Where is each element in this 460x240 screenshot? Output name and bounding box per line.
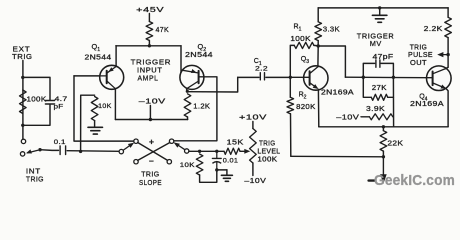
svg-text:+45V: +45V bbox=[136, 5, 164, 14]
wire emitter top rail bbox=[116, 45, 181, 47]
node INT TRIG label bbox=[26, 167, 44, 184]
node EXT TRIG input label bbox=[12, 45, 33, 62]
svg-text:1.2K: 1.2K bbox=[193, 103, 210, 110]
svg-text:AMPL: AMPL bbox=[138, 74, 159, 83]
svg-text:2.2: 2.2 bbox=[255, 66, 268, 73]
wire 3.3K top lead bbox=[317, 8, 319, 22]
svg-text:2N544: 2N544 bbox=[85, 55, 112, 62]
svg-text:2N544: 2N544 bbox=[185, 52, 213, 59]
switch arm left bbox=[123, 143, 134, 151]
switch contact C bbox=[134, 160, 138, 164]
wire negative supply arrow bbox=[380, 157, 387, 184]
svg-text:0.01: 0.01 bbox=[223, 158, 239, 165]
switch contact F bbox=[167, 160, 171, 164]
svg-text:GeekIC.com: GeekIC.com bbox=[374, 173, 455, 189]
value 4.7 pF bbox=[54, 96, 68, 111]
svg-text:100K: 100K bbox=[257, 157, 277, 164]
label Q2 bbox=[198, 42, 207, 53]
resistor 3.9K bbox=[361, 114, 393, 120]
wire +45V lead bbox=[148, 14, 150, 22]
svg-text:+: + bbox=[149, 137, 154, 147]
switch contact B pole bbox=[119, 149, 123, 153]
junction lower RC tap bbox=[21, 124, 24, 127]
resistor 10K level bbox=[196, 154, 203, 175]
label +10V pot bbox=[239, 113, 267, 122]
value 47pF bbox=[373, 54, 394, 61]
junction MV left tap bbox=[362, 76, 365, 79]
value 27K bbox=[372, 85, 387, 92]
svg-text:LEVEL: LEVEL bbox=[257, 148, 280, 155]
label TRIG LEVEL 100K bbox=[257, 140, 280, 163]
ground bias resistor bbox=[88, 127, 103, 134]
wire R1 to 3.3K node bbox=[314, 44, 318, 47]
resistor 3.3K bbox=[315, 22, 322, 41]
wire 1.2K to rail bbox=[187, 117, 189, 120]
wire 10K bottom loop bbox=[200, 171, 217, 182]
wire Q3 emitter down bbox=[317, 89, 319, 127]
junction output tap bbox=[446, 53, 449, 56]
svg-text:+10V: +10V bbox=[239, 113, 267, 122]
resistor R2 820K bbox=[287, 77, 294, 156]
switch contact E pole bbox=[185, 149, 189, 153]
label -10V pot bbox=[244, 176, 266, 185]
transistor Q1 2N544 bbox=[100, 65, 124, 89]
value 3.9K bbox=[366, 106, 385, 113]
resistor 22K bbox=[380, 127, 387, 157]
wire cap branch bottom bbox=[23, 104, 50, 125]
value Q1 2N544 bbox=[85, 55, 112, 62]
resistor 100K input bbox=[20, 90, 27, 114]
node TRIG PULSE OUT bbox=[408, 44, 433, 67]
wire pot to -10V bbox=[252, 163, 254, 176]
wire 3.3K node to MV box bbox=[318, 46, 345, 77]
label TRIGGER MV bbox=[357, 31, 395, 48]
svg-text:2N169A: 2N169A bbox=[410, 101, 444, 108]
label -10V mv bbox=[336, 113, 359, 122]
junction 10K mid tap bbox=[198, 150, 201, 153]
value R2 820K bbox=[296, 104, 316, 111]
junction cap ground node bbox=[215, 168, 218, 171]
label Q3 bbox=[301, 56, 309, 65]
value R1 100K bbox=[290, 36, 311, 43]
svg-text:TRIG: TRIG bbox=[410, 44, 428, 51]
wire Q2 base to switch contact D bbox=[174, 77, 217, 141]
junction -10V rail bbox=[149, 118, 152, 121]
transistor Q4 2N169A bbox=[427, 66, 452, 91]
value Q3 2N169A bbox=[321, 90, 354, 97]
wire E pole to 15K bbox=[189, 150, 224, 152]
capacitor 0.1 coupling bbox=[60, 146, 66, 155]
value 0.01 bbox=[223, 158, 239, 165]
switch contact INT bbox=[20, 152, 24, 156]
svg-text:–10V: –10V bbox=[244, 176, 266, 185]
wire Q2 emitter to C1 bbox=[188, 77, 238, 92]
wire 15K to pot wiper bbox=[240, 149, 250, 154]
svg-text:22K: 22K bbox=[387, 140, 403, 147]
junction 47K rail bbox=[148, 44, 151, 47]
value 2.2K bbox=[424, 26, 443, 33]
value 0.1 bbox=[54, 139, 66, 146]
wire top rail bbox=[318, 7, 448, 9]
svg-text:TRIG: TRIG bbox=[259, 140, 276, 147]
transistor Q3 2N169A bbox=[304, 66, 328, 90]
resistor R1 100K bbox=[294, 42, 314, 48]
resistor 10K base bias bbox=[91, 97, 98, 121]
watermark GeekIC.com bbox=[374, 173, 455, 189]
value 47K bbox=[156, 27, 170, 34]
svg-text:47K: 47K bbox=[156, 27, 170, 34]
wire Q1 base down to slope switch bbox=[74, 76, 134, 141]
resistor 47K bbox=[146, 22, 153, 41]
junction Q3 base node bbox=[289, 76, 292, 79]
wire output arrow bbox=[437, 52, 448, 57]
svg-text:100K: 100K bbox=[290, 36, 311, 43]
label TRIG SLOPE bbox=[139, 170, 162, 187]
wire cap branch top bbox=[23, 77, 50, 100]
capacitor C1 coupling bbox=[238, 73, 289, 80]
svg-text:TRIG: TRIG bbox=[12, 52, 33, 61]
value 22K bbox=[387, 140, 403, 147]
label Q1 bbox=[92, 42, 101, 53]
resistor 15K bbox=[224, 148, 240, 154]
value 1.2K bbox=[193, 103, 210, 110]
switch contact EXT bbox=[21, 139, 25, 143]
ground top rail bbox=[372, 8, 387, 22]
svg-text:–10V: –10V bbox=[336, 113, 359, 122]
wire base node to R1 bbox=[290, 45, 294, 77]
label C1 bbox=[254, 58, 262, 67]
resistor 1.2K bbox=[184, 94, 191, 117]
junction ground rail tap bbox=[378, 6, 381, 9]
junction input switch pole bbox=[38, 148, 41, 151]
junction MV right tap bbox=[392, 76, 395, 79]
wire Q1 base bbox=[74, 75, 100, 77]
wire 2.2K top lead bbox=[447, 8, 449, 17]
wire Q4 emitter down bbox=[446, 89, 448, 127]
wire to ground level bbox=[217, 169, 227, 171]
wire Q3 emitter rail bbox=[319, 126, 448, 128]
value 100K input bbox=[27, 97, 47, 104]
resistor 2.2K bbox=[445, 17, 452, 37]
svg-text:SLOPE: SLOPE bbox=[139, 178, 162, 187]
value 3.3K bbox=[323, 27, 340, 34]
junction Q2 emitter node bbox=[186, 90, 189, 93]
wire bias vertical bbox=[81, 95, 95, 151]
value 10K bias bbox=[98, 103, 112, 110]
value 15K bbox=[227, 139, 244, 146]
wire crossover C-D bbox=[138, 143, 170, 161]
svg-text:3.9K: 3.9K bbox=[366, 106, 385, 113]
wire 47K to rail bbox=[148, 41, 150, 46]
value Q2 2N544 bbox=[185, 52, 213, 59]
switch arm input select bbox=[26, 149, 38, 153]
capacitor 4.7pF bbox=[45, 101, 54, 105]
svg-text:2N169A: 2N169A bbox=[321, 90, 354, 97]
svg-text:TRIG: TRIG bbox=[26, 175, 44, 184]
switch contact D bbox=[169, 139, 173, 143]
wire Q3 collector up bbox=[317, 46, 319, 67]
switch arm right bbox=[174, 142, 185, 149]
ground level filter bbox=[221, 170, 232, 181]
transistor Q2 2N544 bbox=[180, 65, 204, 89]
capacitor 0.01 bbox=[212, 153, 221, 170]
svg-text:2.2K: 2.2K bbox=[424, 26, 443, 33]
wire Q3 base bbox=[290, 76, 303, 78]
label +45V supply bbox=[136, 5, 164, 14]
label minus supply bbox=[369, 179, 376, 181]
wire +10V to pot bbox=[252, 122, 254, 129]
label R1 bbox=[294, 24, 302, 33]
svg-text:10K: 10K bbox=[180, 162, 195, 169]
svg-text:10K: 10K bbox=[98, 103, 112, 110]
wire Q2 emitter diag bbox=[186, 89, 189, 92]
label plus slope bbox=[149, 137, 154, 147]
label -10V amp bbox=[139, 96, 166, 105]
wire 3.3K to node bbox=[317, 41, 319, 46]
junction bias line tap bbox=[79, 150, 82, 153]
value Q4 2N169A bbox=[410, 101, 444, 108]
label Q4 bbox=[419, 93, 427, 102]
value C1 2.2 bbox=[255, 66, 268, 73]
switch contact A bbox=[134, 139, 138, 143]
junction 22K bottom bbox=[382, 155, 385, 158]
junction 22K top bbox=[382, 125, 385, 128]
label TRIGGER INPUT AMPL bbox=[131, 58, 172, 83]
label R2 bbox=[299, 92, 307, 101]
wire R2 bottom rail bbox=[291, 155, 384, 158]
capacitor 47pF bbox=[363, 60, 393, 77]
svg-text:PULSE: PULSE bbox=[408, 52, 433, 59]
wire 0.1 cap to slope switch bbox=[67, 150, 119, 153]
wire 10K to ground bbox=[94, 121, 96, 127]
wire MV main line bbox=[345, 76, 426, 79]
wire -10V stub bbox=[149, 106, 151, 120]
svg-text:4.7: 4.7 bbox=[55, 96, 68, 103]
svg-text:15K: 15K bbox=[227, 139, 244, 146]
svg-text:–: – bbox=[149, 156, 154, 166]
wire crossover A-F bbox=[138, 143, 168, 161]
wire Q1 emitter down bbox=[114, 89, 116, 120]
svg-text:47pF: 47pF bbox=[373, 54, 394, 61]
svg-text:27K: 27K bbox=[372, 85, 387, 92]
potentiometer TRIG LEVEL 100K bbox=[250, 129, 257, 164]
svg-text:–10V: –10V bbox=[139, 96, 166, 105]
svg-text:820K: 820K bbox=[296, 104, 316, 111]
junction 0.01 tap bbox=[215, 150, 218, 153]
svg-text:pF: pF bbox=[54, 104, 64, 111]
wire rail to Q1 bbox=[115, 46, 117, 67]
svg-text:100K: 100K bbox=[27, 97, 47, 104]
resistor 27K bbox=[363, 77, 393, 100]
wire pole to 0.1 cap bbox=[40, 149, 59, 152]
svg-text:MV: MV bbox=[370, 39, 382, 48]
wire EXT TRIG vertical bbox=[22, 61, 24, 140]
label minus slope bbox=[149, 156, 154, 166]
svg-text:0.1: 0.1 bbox=[54, 139, 66, 146]
junction upper RC tap bbox=[21, 76, 24, 79]
svg-text:3.3K: 3.3K bbox=[323, 27, 340, 34]
wire rail to Q2 bbox=[180, 46, 182, 73]
value 10K level bbox=[180, 162, 195, 169]
wire Q4 collector diag bbox=[446, 67, 449, 68]
svg-text:OUT: OUT bbox=[410, 60, 427, 67]
wire 2.2K to Q4 collector bbox=[447, 38, 449, 68]
wire -10V emitter rail bbox=[115, 119, 187, 121]
junction 3.3K node bbox=[317, 44, 320, 47]
wire MV right rail bbox=[392, 77, 394, 127]
